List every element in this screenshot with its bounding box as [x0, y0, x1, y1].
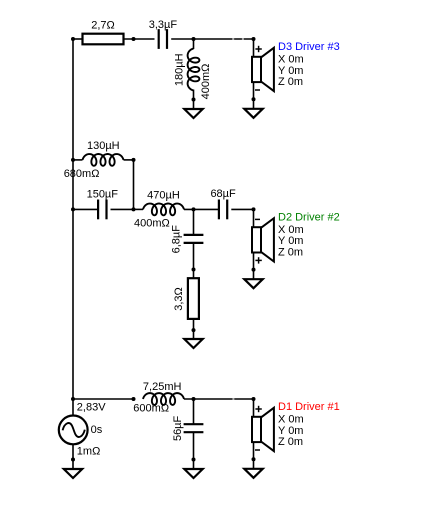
wire into R2	[193, 270, 195, 279]
capacitor 6,8µF	[184, 235, 204, 243]
wire L1 ground stub	[193, 100, 195, 110]
junction D1 node	[252, 397, 256, 401]
speaker D3 cone	[261, 48, 274, 91]
wire R2 to ground node	[193, 319, 195, 330]
junction D3 node	[252, 37, 256, 41]
wire R2 ground stub	[193, 330, 195, 339]
svg-text:Y 0m: Y 0m	[278, 235, 303, 247]
junction C5 node	[192, 397, 196, 401]
junction L1 ground node	[192, 98, 196, 102]
wire source to ground node	[72, 444, 74, 459]
wire D1 terminal bottom	[253, 442, 255, 459]
capacitor 68µF	[219, 200, 227, 220]
svg-text:X 0m: X 0m	[278, 414, 304, 426]
wire node to L1	[193, 39, 195, 49]
wire rail to L2	[73, 159, 83, 161]
capacitor 56µF	[184, 424, 204, 432]
svg-text:6,8µF: 6,8µF	[171, 225, 183, 254]
svg-text:150µF: 150µF	[87, 189, 119, 201]
svg-text:Z 0m: Z 0m	[278, 436, 303, 448]
speaker D2 body	[252, 227, 261, 252]
wire C2 to node	[111, 208, 134, 210]
junction D1 bottom	[252, 457, 256, 461]
svg-text:3,3µF: 3,3µF	[149, 19, 178, 31]
svg-text:X 0m: X 0m	[278, 224, 304, 236]
D3 plus terminal label	[255, 46, 261, 52]
tick mark on top wire	[232, 38, 234, 40]
wire source ground stub	[72, 460, 74, 470]
svg-text:Y 0m: Y 0m	[278, 425, 303, 437]
D1 plus terminal label	[255, 406, 261, 412]
ground under D2	[244, 279, 262, 288]
svg-text:2,7Ω: 2,7Ω	[91, 19, 115, 31]
tick mark on bottom wire	[232, 398, 234, 400]
wire D2 to ground	[253, 270, 255, 280]
wire rail to R1	[73, 38, 83, 40]
ground under C5	[184, 469, 202, 478]
svg-text:D1 Driver #1: D1 Driver #1	[278, 401, 340, 413]
svg-text:56µF: 56µF	[172, 415, 184, 441]
svg-text:180µH: 180µH	[174, 53, 186, 86]
junction source ground node	[71, 458, 75, 462]
wire C1 to node	[171, 38, 253, 40]
wire D1 terminal top	[253, 399, 255, 417]
wire C5 ground stub	[193, 460, 195, 470]
wire D1 to ground	[253, 459, 255, 469]
speaker D2 cone	[261, 218, 274, 261]
svg-text:1mΩ: 1mΩ	[77, 445, 101, 457]
junction L4 left node	[132, 397, 136, 401]
D1 minus terminal label	[255, 449, 260, 451]
wire L2 to node	[124, 159, 134, 161]
svg-text:400mΩ: 400mΩ	[200, 64, 212, 100]
svg-text:0s: 0s	[91, 424, 103, 436]
svg-text:Z 0m: Z 0m	[278, 76, 303, 88]
wire C4 to D2 node	[231, 208, 253, 210]
wire D3 terminal top	[253, 39, 255, 57]
junction C3-R2 node	[192, 268, 196, 272]
wire rail to C2	[73, 208, 99, 210]
svg-text:X 0m: X 0m	[278, 54, 304, 66]
voltage source V1 2,83V	[59, 416, 88, 445]
junction L1 branch node	[192, 37, 196, 41]
wire node to L3	[134, 208, 144, 210]
svg-text:680mΩ: 680mΩ	[64, 168, 100, 180]
capacitor 150µF	[98, 200, 106, 220]
svg-text:D2 Driver #2: D2 Driver #2	[278, 212, 340, 224]
D2 minus terminal label	[255, 218, 260, 220]
wire D3 to ground	[253, 99, 255, 109]
svg-text:3,3Ω: 3,3Ω	[173, 287, 185, 311]
wire D3 terminal bottom	[253, 82, 255, 99]
svg-text:470µH: 470µH	[147, 189, 180, 201]
wire L4 to D1 node	[184, 398, 254, 400]
speaker D1 body	[252, 417, 261, 442]
speaker D3 body	[252, 57, 261, 82]
junction D2 bottom	[252, 268, 256, 272]
junction rail at source	[71, 397, 75, 401]
junction D2 node	[252, 207, 256, 211]
inductor 7,25mH	[143, 393, 184, 405]
junction R1-C1 node	[132, 37, 136, 41]
junction L3-C4 node	[192, 207, 196, 211]
wire L2 node down	[133, 160, 135, 210]
svg-text:68µF: 68µF	[210, 188, 236, 200]
wire node to C5	[193, 399, 195, 424]
junction rail top corner	[71, 37, 75, 41]
capacitor 3,3µF	[159, 29, 167, 49]
wire L1 to ground	[193, 90, 195, 100]
speaker D1 cone	[261, 408, 274, 451]
wire rail to L4	[73, 398, 134, 400]
junction rail at 150µF	[71, 207, 75, 211]
svg-text:400mΩ: 400mΩ	[134, 218, 170, 230]
junction rail at 130µH	[71, 158, 75, 162]
junction L2 right node	[132, 158, 136, 162]
wire node to C3	[193, 209, 195, 235]
wire R1 to C1	[124, 38, 155, 40]
wire L3 to C3	[184, 208, 219, 210]
inductor 180µH	[188, 49, 200, 91]
junction D3 bottom	[252, 97, 256, 101]
svg-text:600mΩ: 600mΩ	[133, 402, 169, 414]
wire C3 to R2	[193, 243, 195, 270]
junction C5 ground node	[192, 458, 196, 462]
svg-text:7,25mH: 7,25mH	[143, 381, 182, 393]
inductor 470µH	[143, 204, 184, 216]
svg-text:2,83V: 2,83V	[77, 402, 106, 414]
wire C5 to ground node	[193, 432, 195, 459]
wire D2 terminal top	[253, 209, 255, 227]
ground under R2	[184, 339, 202, 348]
svg-text:130µH: 130µH	[87, 140, 120, 152]
junction C2-L3 node	[132, 207, 136, 211]
resistor 2,7Ω	[83, 34, 124, 45]
voltage source sine symbol	[63, 423, 85, 437]
tick mark on top wire	[242, 38, 244, 40]
inductor 130µH	[83, 154, 124, 166]
ground under D1	[244, 469, 262, 478]
ground under D3	[244, 109, 262, 118]
resistor 3,3Ω	[188, 278, 199, 319]
ground under L1	[184, 109, 202, 118]
svg-text:Z 0m: Z 0m	[278, 247, 303, 259]
wire main left rail	[72, 39, 74, 416]
junction R2 ground node	[192, 328, 196, 332]
D3 minus terminal label	[255, 89, 260, 91]
svg-text:Y 0m: Y 0m	[278, 65, 303, 77]
ground under source	[64, 469, 82, 478]
wire D2 terminal bottom	[253, 253, 255, 270]
svg-text:D3 Driver #3: D3 Driver #3	[278, 41, 340, 53]
D2 plus terminal label	[255, 257, 261, 263]
